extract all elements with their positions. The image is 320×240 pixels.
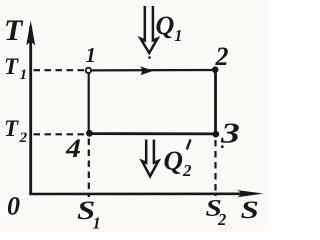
svg-text:3: 3 bbox=[220, 118, 240, 150]
node 3 (dot) bbox=[212, 131, 219, 138]
svg-text:S: S bbox=[241, 197, 259, 224]
T axis (vertical axis line) bbox=[26, 21, 35, 196]
svg-text:2: 2 bbox=[215, 42, 229, 71]
svg-text:T2: T2 bbox=[4, 116, 28, 146]
dashed line T1 level bbox=[34, 69, 85, 71]
node 4 (dot) bbox=[86, 130, 93, 137]
arrowhead on 1-2 bbox=[140, 66, 154, 75]
wire: isotherm 3-4 (bottom edge) bbox=[89, 132, 215, 135]
prime mark of Q2' bbox=[187, 140, 191, 150]
scan speck above 1-2 arrow bbox=[148, 56, 151, 59]
speck after label 3 bbox=[221, 145, 224, 148]
node 2 (dot) bbox=[212, 66, 219, 73]
node 1 (open circle) bbox=[86, 68, 91, 73]
svg-text:2: 2 bbox=[217, 210, 226, 229]
svg-text:1: 1 bbox=[93, 214, 101, 233]
S axis (horizontal axis line) bbox=[29, 190, 263, 197]
dashed line T2 level bbox=[34, 133, 85, 135]
svg-text:1: 1 bbox=[86, 43, 97, 67]
wire: adiabat 2-3 (right edge) bbox=[214, 70, 217, 134]
svg-text:Q2: Q2 bbox=[164, 146, 193, 181]
svg-text:0: 0 bbox=[7, 192, 20, 221]
hollow arrow Q1 (heat in) bbox=[141, 6, 158, 53]
svg-text:T1: T1 bbox=[4, 54, 27, 83]
dashed line S2 level bbox=[214, 140, 216, 196]
svg-text:4: 4 bbox=[65, 135, 81, 164]
wire: isotherm 1-2 (top edge) bbox=[91, 69, 213, 72]
svg-text:T: T bbox=[4, 14, 24, 47]
hollow arrow Q2' (heat out) bbox=[142, 140, 158, 177]
svg-text:Q1: Q1 bbox=[156, 11, 183, 45]
wire: adiabat 4-1 (left edge) bbox=[88, 74, 90, 132]
dashed line S1 level bbox=[88, 139, 90, 198]
